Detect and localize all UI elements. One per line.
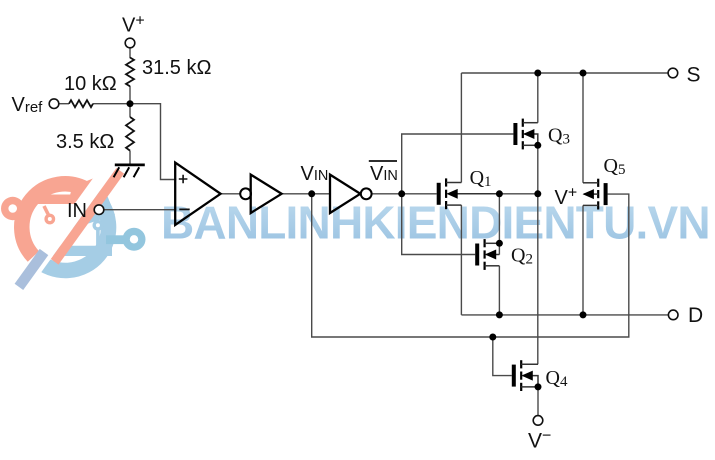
wire V+ to R1 [129,48,131,58]
buffer U2 [251,175,282,213]
blue trace right [106,235,126,244]
wire R1 to R2 through node [129,86,131,117]
transistor Q1 [437,178,500,209]
wire VINB up to Q3 gate [402,134,514,194]
schematic line work [59,48,669,416]
salmon trace left [12,204,32,213]
wire Q4 source to Vminus terminal [537,387,539,416]
wire Q2 source down to D rail [498,266,500,315]
salmon diagonal stripe [51,168,124,265]
blue diagonal tail [15,249,49,290]
inverter U3 output bubble [361,188,372,199]
terminal Vminus [533,416,543,426]
salmon node small [44,206,50,217]
overline of VIN-bar [369,160,397,162]
ground [114,165,145,177]
blue ring arc [36,193,108,271]
wire Q3 drain up to S rail [537,73,539,123]
transistor Q4 [512,360,538,391]
blue node small [96,229,100,246]
blue inner bar [50,246,112,256]
blue corner wedge [68,193,115,230]
svg-text:S: S [687,64,701,87]
resistor R2 3.5k zigzag [126,117,134,151]
white diagonal band [19,159,118,289]
salmon corner wedge [68,176,99,204]
transistor Q5 (mirrored, p-channel) [583,179,608,210]
blue node big [123,228,146,251]
svg-text:3.5 kΩ: 3.5 kΩ [56,131,114,153]
transistor Q3 [513,119,537,150]
salmon ring arc [22,184,88,257]
buffer U2 input bubble [240,188,251,199]
wire Q3 source down to rail and Q4 drain [537,145,539,364]
wire buffer output to node VIN [282,193,330,195]
op-amp U1 [175,163,220,225]
wire branch to Q4 gate [493,337,512,376]
resistor R1 31.5k zigzag [126,58,134,87]
svg-text:BANLINHKIENDIENTU.VN: BANLINHKIENDIENTU.VN [161,197,710,249]
svg-text:IN: IN [67,200,87,222]
wire IN to op-amp minus input [104,209,177,211]
wire VINB down to Q2 gate [402,194,476,255]
terminal IN [94,205,104,215]
wire Q1 drain up to S rail [460,73,462,183]
terminal Vref [49,99,59,109]
wire op-amp output to buffer bubble [221,193,241,195]
wire R3 to node and to op-amp plus input [93,104,176,180]
svg-text:D: D [688,304,703,327]
wire Q5 drain up to S rail [582,73,584,183]
wire Q1 source down to D rail [460,205,462,315]
wire D rail [461,314,668,316]
wire inverter bubble to node VINB and Q1 gate [371,193,437,195]
wire VIN down along bottom to Q5 gate [312,194,629,337]
resistor R3 10k zigzag [69,100,93,107]
wire S rail [461,72,668,74]
terminal V+ top [125,38,135,48]
wire R2 to ground [129,151,131,164]
salmon inner bar [29,195,95,205]
svg-text:31.5 kΩ: 31.5 kΩ [142,57,211,79]
transistor Q2 [475,239,499,270]
terminal D [668,310,678,320]
wire Q1 body rail to V+ label [452,193,538,195]
terminal S [668,68,678,78]
watermark logo [1,159,146,290]
svg-text:10 kΩ: 10 kΩ [64,73,117,95]
wire Q5 source down to D rail [582,205,584,315]
salmon node big [1,197,24,220]
wire Q1 body dot down to Q2 drain and body [498,194,500,255]
inverter U3 [330,175,360,213]
wire Vref to R3 [59,103,69,105]
